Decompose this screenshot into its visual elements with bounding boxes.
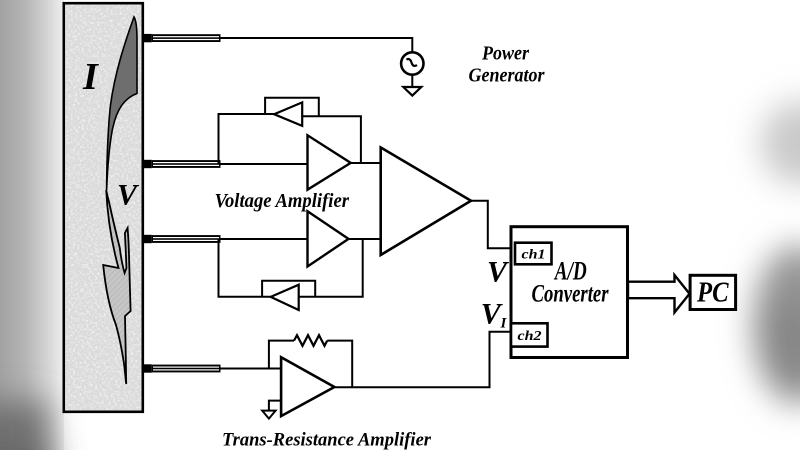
- electrode E3: [144, 235, 221, 243]
- svg-text:PC: PC: [696, 278, 729, 309]
- wire E2 to buffer A1: [221, 163, 308, 165]
- wire U2 output to ch2: [334, 332, 511, 388]
- feedback wire top right: [302, 116, 361, 163]
- svg-text:V: V: [117, 179, 140, 212]
- feedback wire right: [327, 341, 352, 388]
- current streamline (dark sail): [107, 17, 137, 190]
- svg-text:ch2: ch2: [518, 328, 542, 343]
- wire A2 to main amp: [349, 238, 381, 240]
- flow arrow (light ribbon): [103, 190, 130, 384]
- sample box (stippled): [64, 3, 143, 412]
- block arrow A/D to PC: [628, 275, 690, 313]
- wire E3 to buffer A2: [221, 238, 308, 240]
- resistor R1: [294, 335, 327, 346]
- buffer amplifier A2: [308, 211, 349, 266]
- trans-resistance amplifier U2: [281, 357, 334, 416]
- svg-text:I: I: [82, 56, 99, 98]
- svg-text:Trans-Resistance Amplifier: Trans-Resistance Amplifier: [222, 430, 432, 450]
- svg-text:Power: Power: [481, 43, 530, 65]
- ch1 box: [515, 243, 552, 265]
- ground (power generator): [403, 87, 421, 96]
- svg-text:I: I: [500, 316, 508, 332]
- ground wire U2: [269, 401, 281, 411]
- electrode E4: [144, 364, 221, 372]
- feedback loop box bottom: [262, 281, 315, 297]
- left gray shading band: [0, 0, 64, 450]
- bottom-left dark corner: [0, 402, 54, 450]
- wire AC to ground: [411, 75, 413, 88]
- feedback loop box top: [265, 98, 319, 116]
- wire E4 to trans-resistance amp: [221, 368, 282, 370]
- feedback buffer A4 (bottom): [271, 285, 299, 310]
- PC box: [690, 275, 736, 309]
- feedback buffer A3 (top): [274, 102, 302, 126]
- svg-text:Converter: Converter: [532, 279, 610, 308]
- svg-text:Generator: Generator: [469, 65, 546, 87]
- buffer amplifier A1: [308, 135, 351, 189]
- wire E1 to AC source: [221, 38, 413, 52]
- ground (trans-resistance amp): [262, 411, 275, 419]
- feedback wire with resistor R1: [269, 341, 294, 369]
- feedback wire top left: [219, 114, 275, 164]
- AC source: [401, 52, 423, 74]
- wire U1 output to ch1: [471, 201, 515, 249]
- wire A1 to main amp: [351, 162, 381, 164]
- main amplifier U1: [381, 148, 471, 256]
- electrode E1: [144, 34, 221, 42]
- A/D converter box: [511, 227, 628, 358]
- svg-text:V: V: [487, 256, 510, 289]
- feedback wire bottom right: [299, 239, 363, 297]
- svg-text:Voltage Amplifier: Voltage Amplifier: [215, 190, 350, 212]
- right upper haze: [753, 101, 800, 405]
- electrode E2: [144, 160, 221, 168]
- feedback wire bottom left: [219, 239, 271, 297]
- svg-text:ch1: ch1: [522, 247, 546, 262]
- ch2 box: [511, 323, 548, 346]
